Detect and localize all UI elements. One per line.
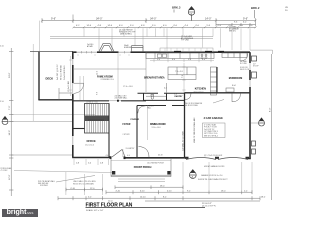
svg-text:11'-0 x 12'-0: 11'-0 x 12'-0 <box>85 145 94 147</box>
hall-garage door arc <box>185 93 191 99</box>
svg-text:8'-0": 8'-0" <box>270 107 272 112</box>
dining door arc <box>138 106 146 113</box>
svg-text:VE: VE <box>285 7 288 9</box>
right vertical dimension extension <box>271 54 273 200</box>
section marker B left <box>2 116 8 124</box>
mudroom notes <box>240 60 250 71</box>
garage header note <box>198 155 228 181</box>
svg-text:6'-0: 6'-0 <box>196 25 200 27</box>
interior rotated dims right of wall <box>97 71 99 95</box>
svg-text:4'-0: 4'-0 <box>240 25 244 27</box>
south wall <box>72 158 251 159</box>
bottom dim row A <box>66 188 252 195</box>
svg-text:KITCHEN: KITCHEN <box>195 87 206 90</box>
svg-text:5'-4: 5'-4 <box>157 59 160 61</box>
left rotated dim labels <box>9 72 11 180</box>
garage west wall <box>184 93 186 158</box>
svg-text:6'-0: 6'-0 <box>243 22 247 24</box>
family room south wall <box>73 100 146 102</box>
svg-text:HDR AT GARAGE DOORS: HDR AT GARAGE DOORS <box>204 165 225 168</box>
deck door in west wall <box>72 83 74 94</box>
east wall of house <box>249 52 251 158</box>
svg-text:4'-2: 4'-2 <box>76 25 80 27</box>
note under office <box>73 180 96 185</box>
svg-text:2x6 PLMB WALL: 2x6 PLMB WALL <box>115 96 128 99</box>
north wall of house <box>72 51 250 53</box>
left extension line x=33 <box>32 44 34 121</box>
svg-text:MUDROOM: MUDROOM <box>229 77 242 80</box>
svg-text:SEE DTL SHT A-5: SEE DTL SHT A-5 <box>204 134 218 137</box>
svg-text:(2) 1.75x11.25 LVL HDR: (2) 1.75x11.25 LVL HDR <box>204 155 223 157</box>
svg-text:A: A <box>190 12 192 16</box>
svg-text:6'-0: 6'-0 <box>174 25 178 27</box>
family room / breakfast divider line <box>145 53 147 93</box>
column line x=118 <box>117 53 119 101</box>
svg-text:2x8 JST @16 OC: 2x8 JST @16 OC <box>57 64 59 80</box>
svg-text:24'-0": 24'-0" <box>9 72 11 78</box>
kitchen south counter <box>146 95 166 97</box>
window office south <box>80 157 98 159</box>
mudroom east wall fixtures <box>252 56 257 78</box>
svg-text:SELF CLOSE: SELF CLOSE <box>240 69 250 71</box>
svg-text:21'-8: 21'-8 <box>158 155 163 157</box>
extension lines from dims to walls <box>84 28 250 51</box>
hall small texts <box>147 105 154 109</box>
dining-porch door arc <box>139 147 150 158</box>
kitchen interior dim line <box>150 59 214 62</box>
svg-text:14'-6": 14'-6" <box>9 130 11 136</box>
svg-text:4'-6: 4'-6 <box>202 59 205 61</box>
left porch leader note <box>1 167 13 172</box>
top dimension line row 2 <box>73 26 257 28</box>
pantry powder block walls <box>138 93 185 100</box>
svg-text:AT BAY: AT BAY <box>87 45 94 48</box>
svg-text:WOOD STL COL BRG ABV: WOOD STL COL BRG ABV <box>73 182 95 185</box>
roof line right over mudroom <box>250 50 273 54</box>
svg-text:2'-6: 2'-6 <box>249 25 253 27</box>
deck west wall <box>38 52 40 100</box>
small note above bay <box>87 44 94 48</box>
bottom dim row B <box>58 196 260 200</box>
top dimension labels row 2 <box>76 25 253 27</box>
svg-text:1'-6: 1'-6 <box>0 46 4 48</box>
kitchen vertical dim line <box>182 63 185 93</box>
stair/office east wall <box>108 104 110 158</box>
svg-text:SCALE: 1/4" = 1'-0": SCALE: 1/4" = 1'-0" <box>86 209 104 212</box>
deck top line <box>30 50 73 52</box>
svg-text:DINING ROOM: DINING ROOM <box>150 123 165 126</box>
porch steps <box>118 179 165 182</box>
svg-text:EGRESS: EGRESS <box>124 47 132 49</box>
column at grid <box>117 100 119 102</box>
marker BRK.3 label top <box>172 6 181 10</box>
closet lines left <box>80 76 84 100</box>
stair arrow <box>88 119 104 121</box>
garage north wall <box>185 92 251 94</box>
svg-text:4'-4: 4'-4 <box>218 25 222 27</box>
svg-text:(2) 2x10 BM: (2) 2x10 BM <box>68 81 70 92</box>
beam line y=69 <box>73 68 146 70</box>
deck annotation text <box>57 64 70 92</box>
kitchen upper cabinet band <box>160 48 213 52</box>
kitchen island <box>168 67 196 80</box>
svg-text:4'-4: 4'-4 <box>185 25 189 27</box>
porch columns <box>112 171 115 175</box>
hall dim extension <box>147 106 149 141</box>
right wall AC units <box>252 141 256 154</box>
right edge small text <box>285 7 288 12</box>
svg-text:FOR INFO: FOR INFO <box>40 185 49 187</box>
svg-text:6'-8: 6'-8 <box>141 25 145 27</box>
svg-text:9'-6": 9'-6" <box>243 18 248 21</box>
mudroom east wall door gaps <box>249 63 251 87</box>
svg-text:SEE DTL: SEE DTL <box>229 30 236 32</box>
svg-text:20: 20 <box>285 10 288 12</box>
note above mudroom <box>229 26 240 33</box>
mudroom bench <box>226 88 234 92</box>
foyer east wall <box>136 106 138 158</box>
svg-text:5'-4: 5'-4 <box>130 25 134 27</box>
dims under south wall <box>76 163 103 165</box>
section marker bottom <box>189 170 196 179</box>
top dimension line row 1 <box>41 15 257 24</box>
small note left of box window <box>124 45 132 49</box>
svg-text:8'x6': 8'x6' <box>232 85 237 87</box>
svg-text:SHORE TBL CHECK AVAIL PRODUCT: SHORE TBL CHECK AVAIL PRODUCT <box>198 178 228 181</box>
svg-text:LINE OF 2ND FLR WALL ABV: LINE OF 2ND FLR WALL ABV <box>193 117 196 143</box>
svg-text:6'-8: 6'-8 <box>97 92 99 95</box>
svg-text:SEE ROOF PLAN: SEE ROOF PLAN <box>184 104 198 107</box>
kitchen north cabinets <box>146 53 214 59</box>
porch outline <box>111 159 171 177</box>
garage extension verticals <box>183 162 252 194</box>
left vertical dimension line <box>9 48 13 196</box>
mudroom door arc <box>240 53 248 62</box>
svg-text:GARAGE DOOR 16'-0 x 8'-0: GARAGE DOOR 16'-0 x 8'-0 <box>201 174 223 177</box>
garage door arc at north wall <box>232 93 241 102</box>
svg-text:BRK.3: BRK.3 <box>172 6 181 10</box>
garage roof note <box>184 102 203 107</box>
svg-text:5'-4: 5'-4 <box>88 163 91 165</box>
bottom overall dim line <box>145 200 260 202</box>
section line B left <box>8 121 73 123</box>
svg-text:9'-6: 9'-6 <box>234 22 238 24</box>
deck wall extension to dim <box>38 21 40 52</box>
svg-text:14'-0": 14'-0" <box>205 18 211 21</box>
svg-text:OFFICE: OFFICE <box>87 140 96 143</box>
deck step <box>59 88 72 100</box>
svg-text:14'-10: 14'-10 <box>140 197 146 199</box>
svg-text:A: A <box>191 175 193 179</box>
svg-text:14'-0: 14'-0 <box>87 25 92 27</box>
extension lines bottom left <box>66 172 103 195</box>
svg-text:2 STORY: 2 STORY <box>123 134 131 136</box>
svg-text:TYP UNO: TYP UNO <box>181 40 190 42</box>
svg-text:3'-0 ENTRY: 3'-0 ENTRY <box>126 148 136 150</box>
svg-text:28'-0: 28'-0 <box>261 197 265 199</box>
dining north wall <box>137 105 185 107</box>
svg-text:COFFERED CLG: COFFERED CLG <box>101 79 115 81</box>
wall notes above family south wall <box>115 94 128 99</box>
mudroom lockers <box>222 53 247 58</box>
toilet powder <box>151 95 154 100</box>
windows west wall <box>72 59 74 145</box>
svg-text:2x6 WALL W/ 1/2 GWB: 2x6 WALL W/ 1/2 GWB <box>182 131 185 151</box>
svg-text:SOLID DR: SOLID DR <box>240 67 248 69</box>
svg-text:5'-0: 5'-0 <box>152 25 156 27</box>
svg-text:34'-0": 34'-0" <box>96 18 102 21</box>
svg-text:6'-0: 6'-0 <box>172 59 175 61</box>
svg-text:R-21 INS: R-21 INS <box>240 63 247 65</box>
windows north wall west <box>77 51 131 53</box>
svg-text:5'-8: 5'-8 <box>207 25 211 27</box>
svg-text:4'-0: 4'-0 <box>163 25 167 27</box>
svg-text:FRONT PORCH: FRONT PORCH <box>134 166 152 169</box>
garage door headers (arched) <box>186 158 248 160</box>
front door jambs <box>110 156 112 159</box>
svg-text:FOYER: FOYER <box>123 124 131 126</box>
svg-text:PANTRY: PANTRY <box>175 95 184 98</box>
svg-text:4'-8: 4'-8 <box>98 25 102 27</box>
svg-text:9'-6": 9'-6" <box>51 18 56 21</box>
thin line y=114.5 <box>11 114 95 116</box>
svg-text:7'-0 x 3'-6: 7'-0 x 3'-6 <box>175 71 183 73</box>
section marker right <box>259 118 265 126</box>
svg-text:BRK.2: BRK.2 <box>251 6 260 10</box>
svg-text:34'-0": 34'-0" <box>150 18 156 21</box>
svg-text:2'-8: 2'-8 <box>76 163 79 165</box>
roof double line above family room <box>50 37 213 39</box>
bottom dim row P <box>115 185 183 189</box>
svg-text:(SEE SCHED): (SEE SCHED) <box>120 34 132 36</box>
svg-text:FAMILY ROOM: FAMILY ROOM <box>97 75 113 78</box>
bottom-left leader note <box>38 180 55 187</box>
porch inner line <box>111 160 171 162</box>
svg-text:7'-0: 7'-0 <box>182 75 184 78</box>
watermark brightMLS <box>2 209 38 217</box>
svg-text:12'-0": 12'-0" <box>9 174 11 180</box>
deck interior dim line <box>69 56 73 96</box>
svg-text:6'-4: 6'-4 <box>119 25 123 27</box>
svg-text:15 RIS @ 7 3/4: 15 RIS @ 7 3/4 <box>86 102 98 104</box>
house west wall <box>72 52 74 158</box>
svg-text:4'-0: 4'-0 <box>106 155 109 157</box>
tall pantry cabinets <box>211 67 217 95</box>
svg-text:4" CONC: 4" CONC <box>1 170 9 172</box>
svg-text:7'-0": 7'-0" <box>9 105 11 110</box>
svg-text:W/ 2x10 RIM BD: W/ 2x10 RIM BD <box>61 65 63 80</box>
svg-text:POWDER: POWDER <box>131 119 140 121</box>
thin line y=155 <box>11 154 73 156</box>
svg-text:DECK: DECK <box>46 77 54 81</box>
box window <box>132 46 144 52</box>
svg-text:STOOP: STOOP <box>253 66 259 68</box>
deck south wall <box>38 99 72 101</box>
stairs <box>85 104 110 134</box>
svg-text:6'-0: 6'-0 <box>127 155 130 157</box>
top dimension labels row 1 <box>51 18 248 21</box>
svg-text:16'-0 HDR AT PORCH: 16'-0 HDR AT PORCH <box>147 162 165 165</box>
header note text block kitchen top <box>181 36 194 42</box>
kitchen/mudroom divider wall <box>216 67 218 93</box>
front door <box>112 150 125 158</box>
bay window family room <box>99 44 114 52</box>
svg-text:4x7: 4x7 <box>253 64 256 66</box>
svg-text:5'-8: 5'-8 <box>188 59 191 61</box>
svg-text:5/4x6 DECKING: 5/4x6 DECKING <box>64 65 66 80</box>
svg-text:2'-8: 2'-8 <box>100 163 103 165</box>
svg-text:2 CAR GARAGE: 2 CAR GARAGE <box>204 117 224 120</box>
office north wall <box>73 128 85 130</box>
garage note box <box>203 123 226 138</box>
svg-text:1'-0: 1'-0 <box>0 101 4 103</box>
stoop note <box>253 64 259 68</box>
section marker A top <box>188 7 194 21</box>
header note text block center top <box>119 29 136 36</box>
svg-text:BREAKFAST AREA: BREAKFAST AREA <box>144 77 165 80</box>
svg-text:14'-0: 14'-0 <box>108 25 113 27</box>
svg-text:13'-0 x 14'-0: 13'-0 x 14'-0 <box>152 127 161 129</box>
right extra dim row <box>216 23 256 26</box>
svg-text:17'-4 x 14'-0: 17'-4 x 14'-0 <box>123 86 133 88</box>
